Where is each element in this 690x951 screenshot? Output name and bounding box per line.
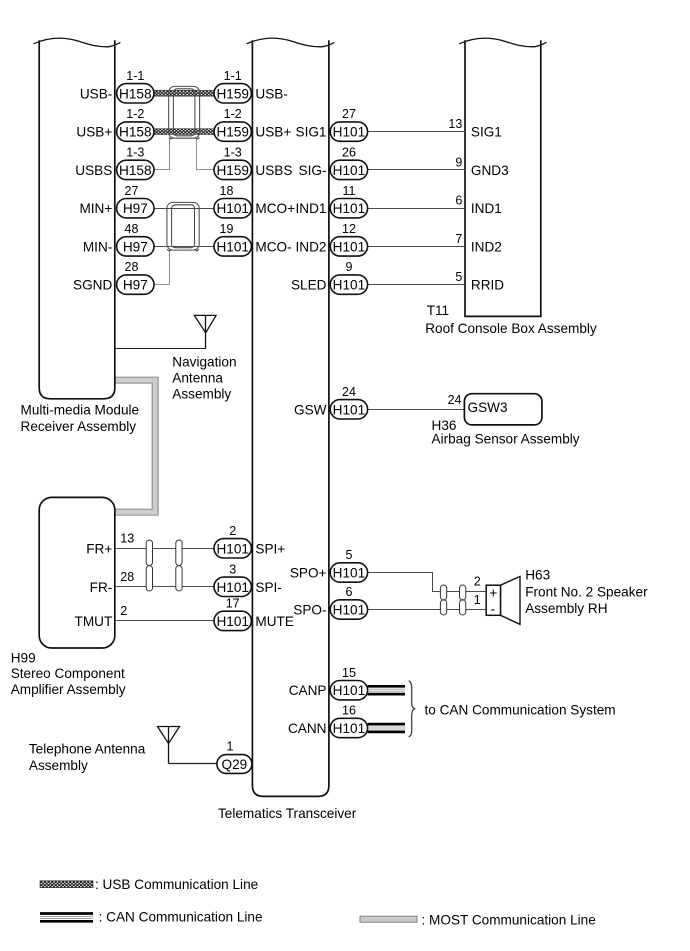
svg-text:Assembly RH: Assembly RH <box>525 601 607 616</box>
svg-text:Assembly: Assembly <box>29 758 88 773</box>
wire TMUT to MUTE <box>115 620 214 622</box>
svg-text:13: 13 <box>448 117 462 131</box>
svg-text:SIG-: SIG- <box>299 163 327 178</box>
wire SPO- to speaker - <box>368 609 487 611</box>
box: Roof Console Box Assembly T11 <box>465 40 541 316</box>
connector H101 pin 5 (SPO+) <box>330 563 367 582</box>
svg-text:1: 1 <box>474 593 481 607</box>
connector H158 pin 1-1 <box>117 84 154 103</box>
wire SIG- to GND3 <box>368 169 465 171</box>
svg-text:H101: H101 <box>333 278 366 293</box>
connector H159 pin 1-1 <box>214 84 251 103</box>
wire MIN+ to MCO+ <box>154 208 214 210</box>
svg-text:1: 1 <box>227 740 234 754</box>
connector H101 pin 6 (SPO-) <box>330 600 367 619</box>
wire CANP (CAN line) <box>368 685 405 688</box>
svg-text:6: 6 <box>346 585 353 599</box>
svg-text:5: 5 <box>346 548 353 562</box>
svg-text:USB+: USB+ <box>76 125 112 140</box>
box: Multi-media Module Receiver Assembly <box>39 40 115 399</box>
svg-text:H101: H101 <box>333 683 366 698</box>
wire navigation antenna to receiver <box>115 348 206 350</box>
wire IND2 to IND2 <box>368 246 465 248</box>
twisted pair marks on FR lines (col 1) <box>146 540 152 566</box>
svg-text:SPO+: SPO+ <box>290 566 327 581</box>
svg-text:SGND: SGND <box>73 278 112 293</box>
wire SGND to shield <box>154 250 170 284</box>
svg-text:18: 18 <box>220 184 234 198</box>
wire SPO+ to speaker + <box>368 573 487 592</box>
wire FR- to SPI- <box>115 586 214 588</box>
svg-text:H101: H101 <box>333 239 366 254</box>
svg-text:H158: H158 <box>119 86 152 101</box>
svg-text:H159: H159 <box>216 163 249 178</box>
svg-text:H101: H101 <box>216 580 249 595</box>
svg-text:to CAN Communication System: to CAN Communication System <box>425 703 616 718</box>
svg-text:Antenna: Antenna <box>172 371 223 386</box>
MOST communication line (multimedia receiver to amplifier) <box>115 380 156 512</box>
svg-text:SPO-: SPO- <box>293 603 326 618</box>
svg-text:SIG1: SIG1 <box>471 125 502 140</box>
svg-text:27: 27 <box>342 107 356 121</box>
svg-text:MUTE: MUTE <box>255 614 294 629</box>
connector H101 pin 18 <box>214 199 251 218</box>
connector H158 pin 1-3 <box>117 160 154 179</box>
shield around USB lines <box>169 86 200 138</box>
svg-text:Multi-media Module: Multi-media Module <box>21 402 140 417</box>
connector H101 pin 17 (MUTE) <box>214 611 251 630</box>
wire IND1 to IND1 <box>368 208 465 210</box>
svg-text:USB+: USB+ <box>255 125 291 140</box>
svg-text:GSW: GSW <box>294 402 327 417</box>
svg-text:Front No. 2 Speaker: Front No. 2 Speaker <box>525 584 648 599</box>
svg-text:RRID: RRID <box>471 278 504 293</box>
svg-text:48: 48 <box>125 222 139 236</box>
svg-text:Roof Console Box Assembly: Roof Console Box Assembly <box>425 321 597 336</box>
svg-text:FR+: FR+ <box>86 541 112 556</box>
svg-text:CANN: CANN <box>288 721 327 736</box>
svg-text:6: 6 <box>455 194 462 208</box>
svg-text:H101: H101 <box>216 541 249 556</box>
svg-text:H36: H36 <box>432 418 457 433</box>
speaker H63 (front no. 2 speaker RH) <box>501 576 521 624</box>
wavy top of Telematics band <box>247 38 335 47</box>
connector H101 pin 9 (SLED) <box>330 275 367 294</box>
svg-text:: CAN Communication Line: : CAN Communication Line <box>99 909 263 924</box>
svg-text:H101: H101 <box>216 239 249 254</box>
svg-text:Airbag Sensor Assembly: Airbag Sensor Assembly <box>432 432 580 447</box>
svg-text:28: 28 <box>125 260 139 274</box>
svg-text:: MOST Communication Line: : MOST Communication Line <box>422 913 596 928</box>
svg-text:9: 9 <box>346 260 353 274</box>
svg-text:H158: H158 <box>119 163 152 178</box>
connector H101 pin 3 (SPI-) <box>214 577 251 596</box>
svg-text:26: 26 <box>342 146 356 160</box>
svg-text:CANP: CANP <box>289 683 327 698</box>
svg-text:24: 24 <box>342 385 356 399</box>
svg-text:9: 9 <box>455 155 462 169</box>
svg-text:H97: H97 <box>123 239 148 254</box>
telephone antenna symbol <box>158 727 180 744</box>
svg-text:IND1: IND1 <box>471 201 502 216</box>
wire USB- shielded twisted line (crosshatch) <box>154 90 214 96</box>
svg-text:SPI+: SPI+ <box>255 541 285 556</box>
wire MIN- to MCO- <box>154 246 214 248</box>
svg-text:H159: H159 <box>216 125 249 140</box>
box: Stereo Component Amplifier Assembly H99 <box>39 497 115 648</box>
wavy top of Multi-media box <box>33 38 120 47</box>
svg-text:2: 2 <box>120 604 127 618</box>
wire CANN (CAN line) <box>368 723 405 726</box>
svg-text:H101: H101 <box>333 201 366 216</box>
connector H101 pin 15 (CANP) <box>330 681 367 700</box>
wire telephone antenna to Q29 <box>169 763 217 765</box>
connector H101 pin 11 (IND1) <box>330 199 367 218</box>
legend: USB communication line sample <box>40 881 93 888</box>
svg-text:2: 2 <box>474 575 481 589</box>
svg-text:Q29: Q29 <box>222 757 248 772</box>
legend: CAN communication line sample <box>40 912 93 915</box>
svg-text:19: 19 <box>220 222 234 236</box>
svg-text:USBS: USBS <box>255 163 292 178</box>
svg-text:USB-: USB- <box>80 86 112 101</box>
svg-text:MCO-: MCO- <box>255 239 291 254</box>
svg-text:IND1: IND1 <box>296 201 327 216</box>
wavy top of Roof Console box <box>459 38 546 47</box>
svg-text:1-1: 1-1 <box>126 69 144 83</box>
svg-text:1-1: 1-1 <box>224 69 242 83</box>
twisted pair marks on speaker lines (col 1) <box>440 585 446 600</box>
svg-text:15: 15 <box>342 666 356 680</box>
wire SIG1 to SIG1 <box>368 131 465 133</box>
svg-text:Receiver Assembly: Receiver Assembly <box>21 419 137 434</box>
svg-text:H101: H101 <box>333 125 366 140</box>
legend: MOST communication line sample <box>360 916 417 922</box>
connector H158 pin 1-2 <box>117 122 154 141</box>
svg-text:USB-: USB- <box>255 86 287 101</box>
connector H101 pin 27 (SIG1) <box>330 122 367 141</box>
connector H101 pin 19 <box>214 237 251 256</box>
svg-text:FR-: FR- <box>90 580 113 595</box>
svg-text:16: 16 <box>342 704 356 718</box>
connector H97 pin 27 <box>117 199 154 218</box>
twisted pair marks on speaker lines (col 2) <box>460 585 466 600</box>
svg-text:MCO+: MCO+ <box>255 201 295 216</box>
svg-text:TMUT: TMUT <box>75 614 113 629</box>
svg-text:H101: H101 <box>333 721 366 736</box>
connector H97 pin 48 <box>117 237 154 256</box>
svg-text:24: 24 <box>448 393 462 407</box>
navigation antenna symbol <box>194 315 216 332</box>
wire USBS right to shield <box>197 138 215 170</box>
wire USBS left to shield <box>154 138 170 170</box>
svg-text:11: 11 <box>343 184 356 198</box>
svg-text:H159: H159 <box>216 86 249 101</box>
svg-text:H101: H101 <box>333 402 366 417</box>
svg-text:1-3: 1-3 <box>126 146 144 160</box>
svg-text:27: 27 <box>125 184 139 198</box>
svg-text:H97: H97 <box>123 201 148 216</box>
svg-text:1-3: 1-3 <box>224 146 242 160</box>
svg-text:2: 2 <box>229 524 236 538</box>
svg-text:H99: H99 <box>11 651 36 666</box>
svg-text:H97: H97 <box>123 278 148 293</box>
svg-text:USBS: USBS <box>75 163 112 178</box>
connector H101 pin 12 (IND2) <box>330 237 367 256</box>
svg-text:Navigation: Navigation <box>172 354 236 369</box>
svg-text:SLED: SLED <box>291 278 327 293</box>
svg-text:+: + <box>489 584 497 600</box>
svg-text:Telematics Transceiver: Telematics Transceiver <box>218 806 357 821</box>
svg-text:H101: H101 <box>333 603 366 618</box>
svg-text:-: - <box>490 600 495 616</box>
connector H101 pin 26 (SIG-) <box>330 160 367 179</box>
svg-text:Stereo Component: Stereo Component <box>11 666 125 681</box>
svg-text:Amplifier Assembly: Amplifier Assembly <box>11 682 126 697</box>
svg-text:5: 5 <box>455 270 462 284</box>
svg-text:IND2: IND2 <box>471 239 502 254</box>
twisted pair marks on FR lines (col 2) <box>176 540 182 566</box>
svg-text:H101: H101 <box>333 566 366 581</box>
svg-text:H158: H158 <box>119 125 152 140</box>
svg-text:H63: H63 <box>525 568 550 583</box>
connector H159 pin 1-2 <box>214 122 251 141</box>
svg-text:H101: H101 <box>216 201 249 216</box>
svg-text:12: 12 <box>342 222 356 236</box>
svg-text:1-2: 1-2 <box>126 107 144 121</box>
wire FR+ to SPI+ <box>115 548 214 550</box>
svg-text:GND3: GND3 <box>471 163 509 178</box>
svg-text:Assembly: Assembly <box>172 387 231 402</box>
connector H101 pin 2 (SPI+) <box>214 539 251 558</box>
connector H101 pin 24 (GSW) <box>330 400 367 419</box>
wire USB+ shielded twisted line (crosshatch) <box>154 129 214 135</box>
connector GSW3 (airbag sensor) <box>464 394 542 425</box>
svg-text:SIG1: SIG1 <box>296 125 327 140</box>
brace to CAN communication system <box>409 681 416 737</box>
svg-text:MIN-: MIN- <box>83 239 112 254</box>
svg-text:1-2: 1-2 <box>224 107 242 121</box>
svg-text:: USB Communication Line: : USB Communication Line <box>95 877 258 892</box>
svg-text:28: 28 <box>120 570 134 584</box>
connector H101 pin 16 (CANN) <box>330 718 367 737</box>
svg-text:7: 7 <box>455 232 462 246</box>
svg-text:IND2: IND2 <box>296 239 327 254</box>
svg-text:T11: T11 <box>427 303 449 318</box>
svg-text:Telephone Antenna: Telephone Antenna <box>29 741 146 756</box>
connector Q29 pin 1 <box>217 755 252 774</box>
connector H159 pin 1-3 <box>214 160 251 179</box>
svg-text:3: 3 <box>229 562 236 576</box>
svg-text:SPI-: SPI- <box>255 580 281 595</box>
svg-text:GSW3: GSW3 <box>468 400 508 415</box>
svg-text:17: 17 <box>226 597 240 611</box>
wire SLED to RRID <box>368 284 465 286</box>
connector H97 pin 28 <box>117 275 154 294</box>
shield around MIN lines <box>167 202 199 250</box>
svg-text:H101: H101 <box>333 163 366 178</box>
svg-text:13: 13 <box>120 531 134 545</box>
svg-text:MIN+: MIN+ <box>79 201 112 216</box>
box: Telematics Transceiver band <box>252 40 329 796</box>
wire GSW to GSW3 <box>368 409 465 411</box>
svg-text:H101: H101 <box>216 614 249 629</box>
